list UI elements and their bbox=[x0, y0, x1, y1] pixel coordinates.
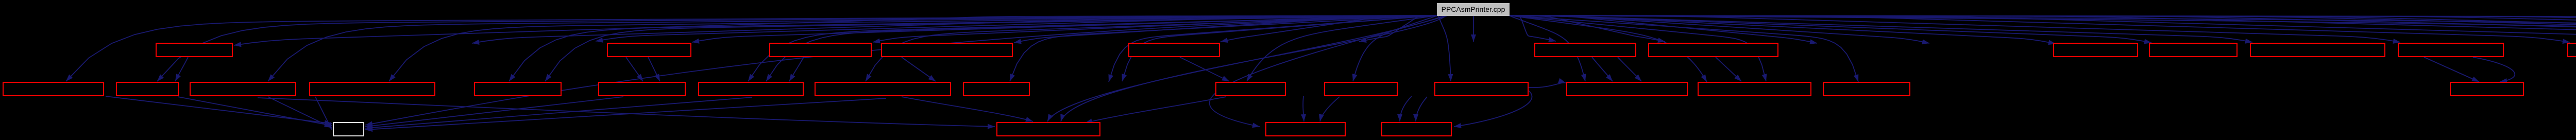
svg-text:PPCAsmPrinter.cpp: PPCAsmPrinter.cpp bbox=[1442, 5, 1505, 13]
